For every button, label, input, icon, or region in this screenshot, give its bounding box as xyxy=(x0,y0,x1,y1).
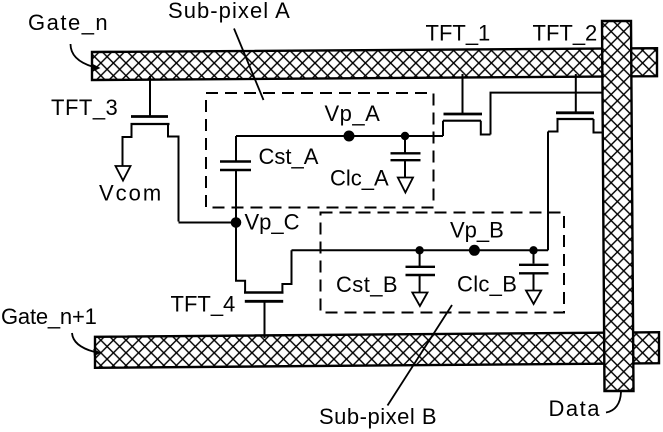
data line Data (hatched vertical bus bar) xyxy=(602,21,634,391)
node Vp_C (junction dot) xyxy=(231,217,242,228)
gate line Gate_n (hatched bus bar) xyxy=(92,48,657,80)
leader line for Sub-pixel A xyxy=(234,29,264,101)
transistor TFT_2 xyxy=(548,74,603,133)
svg-text:Data: Data xyxy=(549,396,601,421)
wire TFT_3 drain to node Vp_C xyxy=(179,222,237,224)
node Vp_A (junction dot) xyxy=(344,131,355,142)
leader arrow for Gate_n xyxy=(71,44,101,71)
leader line for Sub-pixel B xyxy=(388,305,453,406)
svg-text:Vp_B: Vp_B xyxy=(450,218,504,243)
svg-text:TFT_2: TFT_2 xyxy=(533,21,598,46)
transistor TFT_1 xyxy=(443,74,491,136)
dashed box Sub-pixel A xyxy=(206,93,434,208)
svg-text:Sub-pixel A: Sub-pixel A xyxy=(168,0,291,23)
svg-text:Cst_A: Cst_A xyxy=(259,144,319,169)
wire TFT_2 source down to Vp_B net xyxy=(547,132,549,251)
svg-text:Sub-pixel B: Sub-pixel B xyxy=(319,404,437,429)
node Vp_B (junction dot) xyxy=(469,245,480,256)
gate line Gate_n+1 (hatched bus bar) xyxy=(95,332,659,368)
wire TFT_1 drain to Data line xyxy=(491,93,604,135)
svg-text:Cst_B: Cst_B xyxy=(336,272,398,297)
capacitor Clc_A xyxy=(391,132,421,193)
svg-text:Clc_B: Clc_B xyxy=(457,272,517,297)
svg-text:Clc_A: Clc_A xyxy=(330,166,389,191)
capacitor Cst_A xyxy=(220,136,251,223)
transistor TFT_3 xyxy=(123,76,179,222)
svg-text:Vp_A: Vp_A xyxy=(325,101,381,126)
svg-text:TFT_1: TFT_1 xyxy=(426,21,491,46)
transistor TFT_4 (gate below) xyxy=(236,223,292,339)
svg-text:TFT_3: TFT_3 xyxy=(51,95,118,120)
svg-text:TFT_4: TFT_4 xyxy=(171,292,236,317)
wire Vp_A net (horizontal) xyxy=(236,135,443,137)
svg-text:Vp_C: Vp_C xyxy=(245,210,300,235)
leader arrow for Gate_n+1 xyxy=(72,333,101,356)
svg-text:Gate_n+1: Gate_n+1 xyxy=(1,304,97,329)
capacitor Cst_B xyxy=(406,246,436,306)
capacitor Clc_B xyxy=(519,246,549,304)
leader line for Data xyxy=(606,392,621,413)
dashed box Sub-pixel B xyxy=(321,213,565,313)
svg-text:Gate_n: Gate_n xyxy=(28,10,109,35)
wire Vp_B net (horizontal) xyxy=(292,249,549,251)
svg-text:Vcom: Vcom xyxy=(99,181,163,206)
Vcom ground-symbol triangle at TFT_3 xyxy=(116,166,131,181)
